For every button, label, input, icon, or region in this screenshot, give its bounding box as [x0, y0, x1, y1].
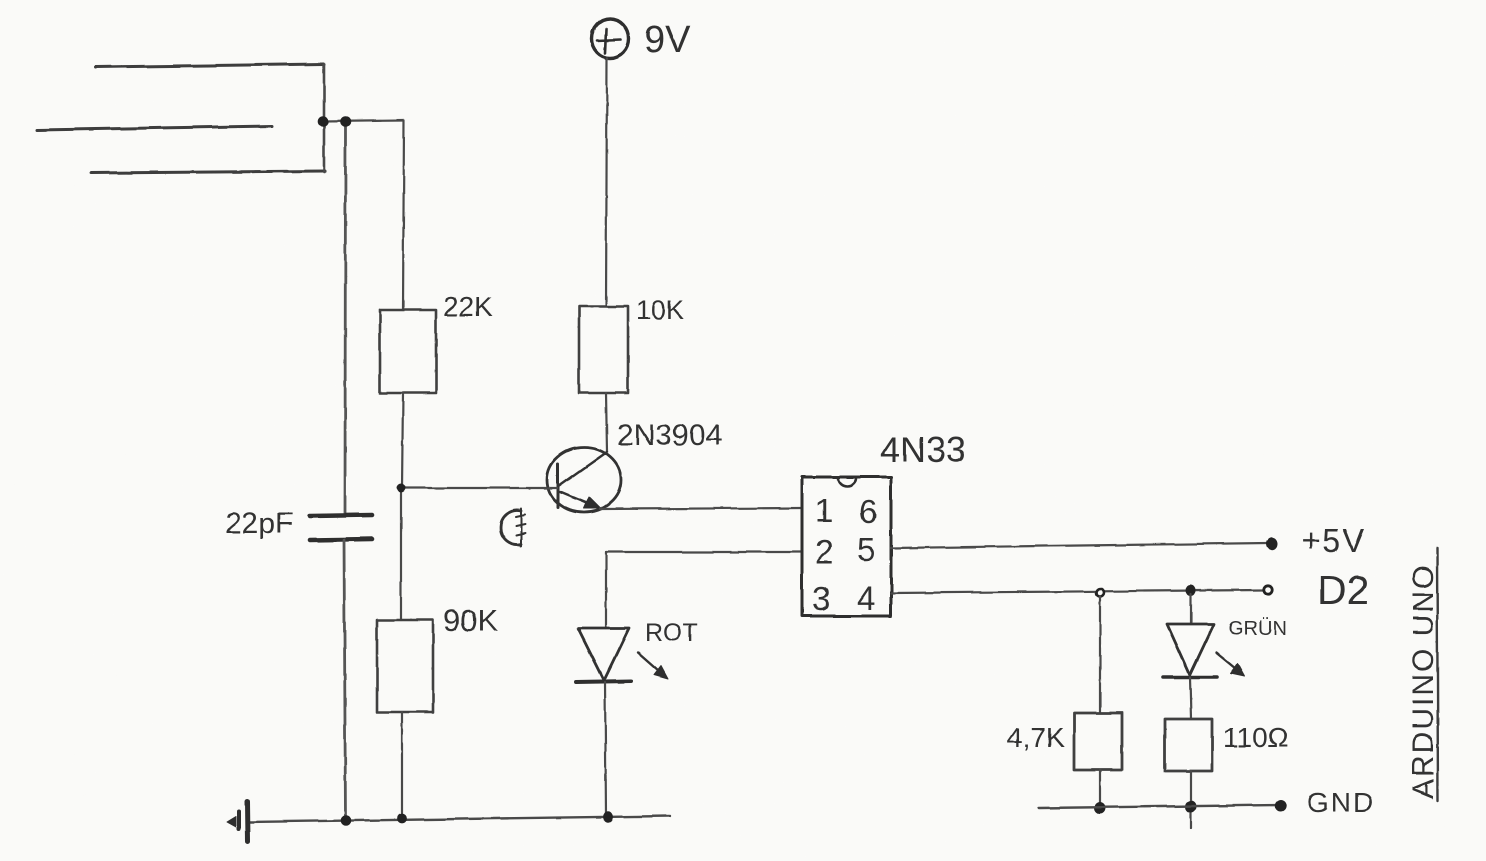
- antenna electrode right vertical edge: [323, 64, 326, 172]
- microphone/contact symbol arc: [501, 510, 521, 544]
- base wire from node C to Q1: [401, 487, 557, 489]
- wire pin 4 to D2: [891, 590, 1263, 593]
- svg-text:10K: 10K: [636, 295, 684, 325]
- svg-text:9V: 9V: [644, 19, 691, 61]
- node C base junction dot: [397, 484, 405, 492]
- node 110R ground dot: [1186, 801, 1196, 812]
- node A antenna junction dot: [318, 116, 328, 126]
- svg-text:+5V: +5V: [1301, 522, 1367, 559]
- svg-text:1: 1: [815, 492, 833, 529]
- svg-text:4N33: 4N33: [880, 429, 966, 470]
- wire pin 5 to +5V: [891, 543, 1268, 548]
- wire down to 22K top: [403, 120, 404, 310]
- wire antenna junction to resistor branch: [323, 120, 404, 121]
- svg-text:ARDUINO UNO: ARDUINO UNO: [1407, 564, 1440, 799]
- LED D1 cathode bar: [576, 681, 631, 682]
- antenna electrode plate (middle line): [37, 126, 272, 130]
- svg-text:90K: 90K: [443, 603, 498, 638]
- wire 90K bottom to ground rail: [401, 712, 403, 818]
- svg-text:4,7K: 4,7K: [1007, 722, 1065, 753]
- svg-text:ROT: ROT: [645, 619, 698, 647]
- svg-text:2N3904: 2N3904: [617, 419, 722, 452]
- node ground dot LED ROT: [604, 812, 613, 822]
- transistor Q1 emitter arrowhead: [584, 497, 601, 509]
- LED D2 GRUEN triangle: [1167, 624, 1214, 675]
- battery + sign: [597, 29, 620, 53]
- ground symbol arrowhead: [227, 817, 236, 828]
- optocoupler U1 notch: [838, 478, 856, 486]
- ground rail (left): [249, 816, 670, 822]
- wire 4,7K to ground rail: [1099, 770, 1101, 807]
- wire capacitor to ground rail: [344, 540, 346, 820]
- resistor R5 110R body: [1165, 719, 1212, 771]
- svg-text:2: 2: [815, 533, 833, 570]
- wire node C to 90K top: [400, 488, 402, 620]
- svg-text:22K: 22K: [443, 291, 493, 322]
- wire 9V to 10K: [606, 58, 607, 306]
- wire LED ROT to ground rail: [605, 682, 606, 816]
- resistor R4 4,7K body: [1074, 713, 1122, 770]
- svg-text:110Ω: 110Ω: [1223, 722, 1289, 753]
- transistor Q1 base bar: [557, 464, 560, 507]
- LED D2 light arrow: [1216, 653, 1238, 671]
- transistor Q1 2N3904 circle: [547, 448, 621, 513]
- wire 110R to ground: [1190, 771, 1192, 828]
- capacitor C1 22pF bottom plate: [310, 539, 372, 540]
- node 4,7K ground dot: [1095, 803, 1105, 814]
- wire junction down to 4,7K: [1099, 596, 1101, 713]
- node filled junction on D2 wire: [1187, 586, 1196, 596]
- ground rail (right / GND): [1038, 805, 1283, 808]
- wire 22K bottom to node C: [402, 393, 403, 488]
- wire 10K to collector: [606, 393, 607, 452]
- svg-text:5: 5: [857, 531, 875, 568]
- LED D2 cathode bar: [1163, 675, 1217, 679]
- ground symbol tall bar: [245, 802, 251, 841]
- wire optocoupler pin 2 horizontal: [606, 551, 802, 553]
- node ground dot left vertical: [341, 816, 351, 826]
- wire junction down to LED GRUEN: [1190, 594, 1192, 624]
- battery +9V terminal circle: [592, 19, 629, 58]
- svg-text:6: 6: [859, 493, 877, 530]
- svg-text:GND: GND: [1307, 787, 1375, 818]
- resistor R1 22K body: [380, 310, 436, 393]
- node open junction on D2 wire: [1096, 589, 1104, 597]
- svg-text:3: 3: [812, 580, 830, 617]
- optocoupler U1 4N33 body: [802, 477, 891, 616]
- resistor R3 10K body: [579, 306, 628, 393]
- wire pin2 corner down to LED ROT: [605, 552, 607, 628]
- antenna electrode plate (bottom line): [91, 171, 325, 173]
- wire LED GRUEN to 110R: [1190, 677, 1191, 719]
- node D2 terminal circle: [1264, 585, 1272, 593]
- node B antenna junction dot: [341, 117, 351, 127]
- transistor Q1 emitter stroke: [560, 492, 596, 507]
- svg-text:GRÜN: GRÜN: [1228, 618, 1287, 640]
- transistor Q1 collector stroke: [559, 452, 607, 486]
- antenna electrode plate (top line): [95, 64, 324, 67]
- svg-text:4: 4: [857, 580, 875, 617]
- LED D1 ROT triangle: [578, 628, 629, 680]
- ground symbol short bar: [237, 812, 241, 829]
- emitter wire to optocoupler pin 1: [600, 508, 802, 509]
- resistor R2 90K body: [377, 620, 433, 712]
- microphone/contact symbol ticks: [516, 509, 525, 546]
- arduino bracket line: [1437, 548, 1438, 801]
- node GND terminal dot: [1276, 801, 1286, 812]
- svg-text:D2: D2: [1317, 567, 1369, 613]
- node +5V terminal dot: [1267, 538, 1277, 550]
- capacitor C1 22pF top plate: [310, 515, 372, 516]
- svg-text:22pF: 22pF: [225, 507, 293, 540]
- node ground dot 90K: [398, 814, 407, 823]
- wire node B down to capacitor: [344, 122, 347, 515]
- LED D1 light arrow: [638, 653, 663, 675]
